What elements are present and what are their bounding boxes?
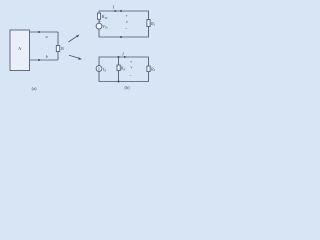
node b of circuit (a) <box>38 59 40 61</box>
voltage source V_Th <box>96 23 102 29</box>
current arrow I (Thevenin top wire) <box>115 10 118 12</box>
resistor R_L (Norton load) <box>147 66 150 72</box>
current arrow I (Norton top wire) <box>124 56 127 58</box>
resistor R_Th <box>97 13 100 19</box>
node a of circuit (a) <box>38 31 40 33</box>
svg-text:−: − <box>129 74 132 79</box>
svg-text:−: − <box>125 27 128 32</box>
resistor R_L (Thevenin load) <box>147 20 150 27</box>
svg-text:v: v <box>130 64 132 69</box>
svg-text:v: v <box>126 19 128 24</box>
wire top of circuit (a) <box>30 31 59 33</box>
wire middle branch (R_N branch) <box>118 57 120 82</box>
wire bottom of circuit (a) <box>30 59 59 61</box>
svg-text:B: B <box>61 46 64 51</box>
svg-text:(b): (b) <box>124 85 130 90</box>
resistor R_N <box>117 65 120 71</box>
svg-text:+: + <box>99 20 101 24</box>
wire between R_Th and V_Th <box>98 19 100 23</box>
svg-text:b: b <box>46 54 48 59</box>
wire top-right circuit outline (Thevenin loop) <box>99 11 149 37</box>
node a of Thevenin circuit <box>120 10 122 12</box>
wire bottom-right circuit outline (Norton loop) <box>99 57 149 82</box>
node junction top of Norton circuit <box>118 56 120 58</box>
node junction bottom of Norton circuit <box>118 81 120 83</box>
arrow to Norton equivalent <box>69 55 82 60</box>
arrow inside current source <box>98 67 100 70</box>
arrow to Thevenin equivalent <box>69 35 80 42</box>
svg-text:a: a <box>46 34 48 39</box>
current source I_N <box>96 66 102 72</box>
svg-text:(a): (a) <box>32 86 37 91</box>
resistor B (load of circuit a) <box>56 46 59 52</box>
node b of Thevenin circuit <box>120 36 122 38</box>
box A (linear circuit A) <box>10 30 30 71</box>
wire right branch of circuit (a) <box>57 32 59 60</box>
